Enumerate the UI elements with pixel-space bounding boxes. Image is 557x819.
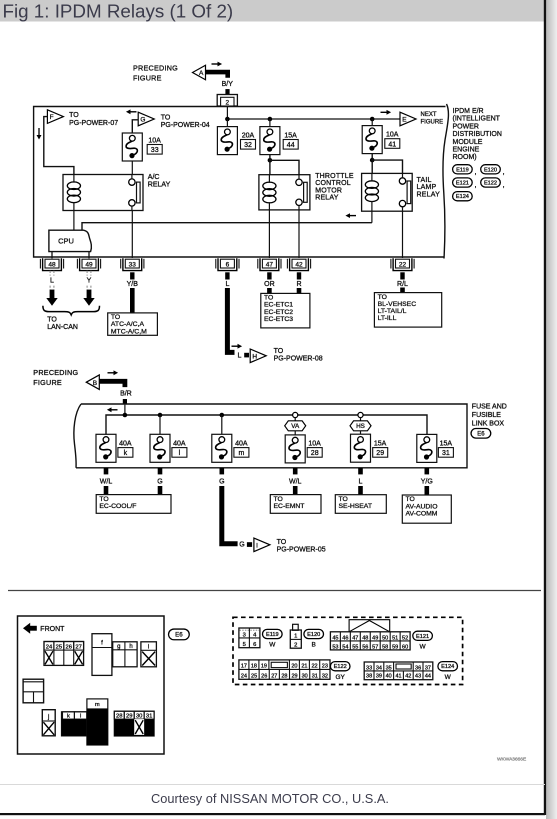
junction dot at fuse 32 tap <box>225 117 230 122</box>
svg-text:E119: E119 <box>266 632 279 638</box>
svg-text:37: 37 <box>425 665 431 671</box>
svg-text:E120: E120 <box>484 167 497 173</box>
fuse box output stub (G) <box>158 468 163 475</box>
svg-text:EC-ETC2: EC-ETC2 <box>264 309 293 316</box>
thick wire L from terminal 6 down <box>225 272 229 279</box>
terminal 22 of IPDM box <box>391 258 414 270</box>
svg-text:41: 41 <box>388 141 396 148</box>
svg-text:LAN-CAN: LAN-CAN <box>47 324 78 331</box>
svg-text:31: 31 <box>146 714 152 720</box>
svg-text:PRECEDING: PRECEDING <box>33 368 78 377</box>
fuse 15A 31 <box>417 434 437 462</box>
connector oval E119 <box>453 165 473 174</box>
svg-text:47: 47 <box>266 261 274 268</box>
triangle F to PG-POWER-07 <box>47 110 63 124</box>
junction dot under fuse 44 <box>268 158 273 163</box>
thick wire B/R from B to fuse box <box>99 381 125 387</box>
svg-text:PG-POWER-04: PG-POWER-04 <box>161 122 210 129</box>
page bottom border <box>0 813 545 815</box>
svg-text:HS: HS <box>356 423 365 430</box>
svg-text:33: 33 <box>366 665 372 671</box>
wire stub before H triangle <box>244 353 249 358</box>
svg-text:LT-TAIL/L: LT-TAIL/L <box>378 308 407 315</box>
svg-text:6: 6 <box>253 642 256 648</box>
connector views dashed frame <box>233 617 463 684</box>
cell j with X <box>42 710 55 736</box>
svg-text:40A: 40A <box>173 440 186 447</box>
thick wire R/L to BL-VEHSEC box <box>400 272 404 279</box>
svg-text:42: 42 <box>295 261 303 268</box>
svg-text:31: 31 <box>442 450 450 457</box>
svg-text:EC-COOL/F: EC-COOL/F <box>99 503 136 510</box>
terminal 6 of IPDM box <box>216 258 239 270</box>
svg-text:43: 43 <box>415 674 421 680</box>
bus line to E triangle <box>227 118 400 120</box>
svg-text:29: 29 <box>126 714 132 720</box>
tap circle HS <box>358 412 363 417</box>
svg-text:E6: E6 <box>175 631 183 638</box>
svg-text:DISTRIBUTION: DISTRIBUTION <box>453 131 502 138</box>
svg-text:E121: E121 <box>456 181 469 187</box>
svg-text:3: 3 <box>243 632 246 638</box>
svg-text:28: 28 <box>116 714 122 720</box>
thick wire B/Y from A to connector 2 <box>206 72 228 78</box>
svg-text:m: m <box>95 702 100 708</box>
throttle control motor relay <box>259 175 310 210</box>
to box SE-HSEAT <box>335 495 386 514</box>
svg-text:10A: 10A <box>148 137 161 144</box>
fuse 10A 33 <box>122 133 142 161</box>
svg-text:36: 36 <box>415 665 421 671</box>
svg-text:32: 32 <box>244 142 252 149</box>
svg-text:MODULE: MODULE <box>453 139 483 146</box>
connector E121 pin view (45-60) <box>330 620 410 651</box>
fuse and fusible link box outline <box>76 404 467 468</box>
svg-text:48: 48 <box>48 261 56 268</box>
fuse box output stub (Y/G) <box>425 468 430 475</box>
svg-text:i: i <box>148 644 149 650</box>
svg-text:52: 52 <box>402 635 408 641</box>
fuse 20A 32 <box>226 119 228 127</box>
svg-text:B: B <box>312 642 316 649</box>
terminal 47 of IPDM box <box>258 258 281 270</box>
cells g h <box>113 642 137 667</box>
svg-text:SE-HSEAT: SE-HSEAT <box>339 503 373 510</box>
fuse box torn left edge <box>74 404 81 468</box>
connector oval E6 (fuse box) <box>471 429 491 439</box>
svg-text:28: 28 <box>281 673 287 679</box>
fuse 10A 28 <box>285 435 305 463</box>
thick wire Y/B to A/C box <box>130 272 134 279</box>
svg-text:k: k <box>67 714 70 720</box>
svg-text:44: 44 <box>287 142 295 149</box>
svg-text:B/R: B/R <box>120 390 132 397</box>
svg-text:k: k <box>124 450 128 457</box>
svg-text:L: L <box>225 281 229 288</box>
svg-text:EC-ETC3: EC-ETC3 <box>264 316 293 323</box>
branch wire to throttle relay contact <box>270 155 299 175</box>
svg-text:MOTOR: MOTOR <box>315 187 342 194</box>
section separator line <box>8 590 541 592</box>
svg-text:FIGURE: FIGURE <box>133 73 162 82</box>
oval E120 (view label) <box>304 629 324 638</box>
svg-text:F: F <box>50 114 54 121</box>
wire tail relay contact to terminal 22 <box>402 211 404 258</box>
svg-text:E124: E124 <box>456 194 469 200</box>
svg-text:W: W <box>420 643 427 650</box>
svg-text:W: W <box>269 642 276 649</box>
svg-text:44: 44 <box>425 674 431 680</box>
svg-text:22: 22 <box>311 663 317 669</box>
svg-text:h: h <box>129 644 132 650</box>
svg-text:LT-ILL: LT-ILL <box>378 315 397 322</box>
wire A/C relay contact to terminal 33 <box>131 211 133 259</box>
arrow left on bus <box>107 407 118 412</box>
junction dot fuse m tap <box>220 413 225 418</box>
svg-text:l: l <box>80 714 81 720</box>
CPU control wire to relay coils <box>82 223 372 231</box>
svg-text:57: 57 <box>372 644 378 650</box>
svg-text:CPU: CPU <box>58 237 74 246</box>
svg-text:Y/G: Y/G <box>421 479 433 486</box>
arrow right above wire A <box>212 62 223 67</box>
triangle I to PG-POWER-05 <box>254 538 270 552</box>
svg-text:51: 51 <box>392 635 398 641</box>
fuse box output stub (W/L) <box>293 468 298 475</box>
brace under CAN arrows <box>43 306 100 315</box>
svg-text:L: L <box>50 278 54 285</box>
connector 2 (on IPDM box top) <box>217 95 237 107</box>
svg-text:26: 26 <box>66 644 72 650</box>
svg-text:41: 41 <box>395 674 401 680</box>
svg-text:33: 33 <box>129 261 137 268</box>
svg-text:45: 45 <box>332 635 338 641</box>
fuse 15A 29 <box>351 434 371 462</box>
svg-text:53: 53 <box>332 644 338 650</box>
title bar <box>0 0 557 22</box>
svg-text:VA: VA <box>291 423 300 430</box>
svg-text:40: 40 <box>386 674 392 680</box>
svg-text:AV-COMM: AV-COMM <box>406 510 438 517</box>
svg-text:E122: E122 <box>334 664 347 670</box>
svg-text:RELAY: RELAY <box>148 182 171 189</box>
junction dot B/R on bus <box>123 413 128 418</box>
svg-text:20: 20 <box>291 663 297 669</box>
connector oval E121 <box>453 178 473 187</box>
svg-text:E: E <box>402 117 407 124</box>
svg-text:TO: TO <box>99 496 108 503</box>
svg-text:TO: TO <box>406 496 415 503</box>
svg-text:60: 60 <box>402 644 408 650</box>
IPDM E/R box outline <box>34 107 446 258</box>
terminal 33 of IPDM box <box>121 258 144 270</box>
fuse 15A 44 <box>269 119 271 127</box>
thick wire G to EC-COOL/F <box>158 486 163 495</box>
triangle A (from preceding figure) <box>193 65 206 80</box>
svg-text:CONTROL: CONTROL <box>315 180 351 187</box>
wire stub before I triangle <box>247 542 252 547</box>
svg-text:FIGURE: FIGURE <box>421 119 444 125</box>
svg-text:33: 33 <box>151 147 159 154</box>
svg-text:25: 25 <box>56 644 62 650</box>
terminal 42 of IPDM box <box>287 258 310 270</box>
wire from G down to fuse 33 <box>132 120 138 133</box>
svg-text:FRONT: FRONT <box>40 626 65 633</box>
connector E122 pin view (17-32) <box>239 660 330 679</box>
svg-text:59: 59 <box>392 644 398 650</box>
CAN wire dashes and arrow (Y) <box>83 271 94 306</box>
courtesy separator line <box>0 784 545 786</box>
svg-text:TO: TO <box>111 314 120 321</box>
svg-text:Y: Y <box>87 278 92 285</box>
svg-text:B/Y: B/Y <box>222 81 234 88</box>
svg-text:IPDM E/R: IPDM E/R <box>453 108 484 115</box>
svg-text:TO: TO <box>277 539 287 546</box>
svg-text:40A: 40A <box>235 440 248 447</box>
svg-text:j: j <box>47 715 49 721</box>
svg-text:47: 47 <box>352 635 358 641</box>
fuse box output stub (L) <box>358 468 363 475</box>
svg-text:LAMP: LAMP <box>417 184 437 191</box>
svg-text:PG-POWER-07: PG-POWER-07 <box>69 120 118 127</box>
svg-text:15A: 15A <box>374 440 387 447</box>
CPU pin to terminal 49 <box>88 252 90 259</box>
svg-text:I: I <box>256 542 258 549</box>
junction dot at fuse 44 tap <box>268 117 273 122</box>
svg-text:POWER: POWER <box>453 123 479 130</box>
thick wire W/L to EC-EMNT <box>293 486 298 495</box>
svg-text:W/L: W/L <box>100 479 113 486</box>
bus wire from connector 2 <box>226 106 228 119</box>
svg-text:31: 31 <box>312 673 318 679</box>
svg-text:FUSIBLE: FUSIBLE <box>472 412 502 419</box>
svg-text:A: A <box>199 70 204 77</box>
svg-text:2: 2 <box>294 642 297 648</box>
thick wire G to PG-POWER-05 <box>222 486 238 544</box>
fuse box output stub (G) <box>220 468 225 475</box>
svg-text:E124: E124 <box>441 664 454 670</box>
triangle E to next figure <box>400 112 416 126</box>
wire B/R into bus <box>124 405 126 415</box>
thick wire Y/G to AV box <box>424 486 429 495</box>
CAN wire dashes and arrow (L) <box>46 271 57 306</box>
svg-text:BL-VEHSEC: BL-VEHSEC <box>378 301 417 308</box>
svg-text:55: 55 <box>352 644 358 650</box>
svg-text:PG-POWER-08: PG-POWER-08 <box>274 355 323 362</box>
cell m (shaded) <box>87 699 108 745</box>
to box ATC/MTC <box>108 313 158 335</box>
svg-text:B: B <box>93 380 97 387</box>
svg-text:58: 58 <box>382 644 388 650</box>
svg-text:29: 29 <box>292 673 298 679</box>
svg-text:Fig 1: IPDM Relays (1 Of 2): Fig 1: IPDM Relays (1 Of 2) <box>3 0 234 21</box>
oval E121 (view label) <box>413 631 433 640</box>
svg-text:ENGINE: ENGINE <box>453 147 480 154</box>
to box AV-AUDIO AV-COMM <box>402 495 451 523</box>
hexagon VA (VQ35DE with A/T) <box>294 418 296 421</box>
fuse 40A m <box>212 434 232 462</box>
fuse box layout figure frame <box>18 616 165 754</box>
svg-text:27: 27 <box>271 673 277 679</box>
connector oval E6 (figure label) <box>169 629 190 640</box>
connector oval E122 <box>481 178 501 187</box>
wire A/C relay coil to CPU <box>73 211 75 231</box>
junction dot fuse l tap <box>158 413 163 418</box>
svg-text:EC-ETC1: EC-ETC1 <box>264 302 293 309</box>
arrow right on L wire <box>232 344 243 349</box>
svg-text:15A: 15A <box>284 132 297 139</box>
relay f cell <box>92 634 112 676</box>
svg-text:20A: 20A <box>242 132 255 139</box>
svg-text:46: 46 <box>342 635 348 641</box>
svg-text:MTC-A/C,M: MTC-A/C,M <box>111 328 147 335</box>
svg-text:FIGURE: FIGURE <box>33 378 62 387</box>
small block left <box>23 679 43 703</box>
svg-text:G: G <box>157 479 162 486</box>
svg-text:2: 2 <box>225 99 229 106</box>
svg-text:42: 42 <box>405 674 411 680</box>
svg-text:E119: E119 <box>456 167 469 173</box>
svg-text:TAIL: TAIL <box>417 177 432 184</box>
svg-text:H: H <box>252 353 257 360</box>
arrow left on CPU control wire <box>345 213 356 218</box>
svg-text:ATC-A/C,A: ATC-A/C,A <box>111 321 145 328</box>
svg-text:TO: TO <box>274 348 284 355</box>
wire throttle relay contact to terminal 42 <box>298 210 300 258</box>
svg-text:19: 19 <box>261 663 267 669</box>
svg-text:17: 17 <box>241 663 247 669</box>
connector E119 pin view (3 4 / 5 6) <box>239 628 260 648</box>
thick wire R to EC-ETC box <box>297 272 301 279</box>
svg-text:TO: TO <box>161 115 171 122</box>
wire throttle relay coil to terminal 47 <box>268 210 270 258</box>
svg-text:W: W <box>445 674 452 681</box>
svg-text:TO: TO <box>47 316 57 323</box>
FRONT arrow <box>23 623 37 634</box>
fuse 40A k <box>96 434 116 462</box>
svg-text:27: 27 <box>75 644 81 650</box>
svg-text:ROOM): ROOM) <box>453 154 477 161</box>
svg-text:39: 39 <box>376 674 382 680</box>
thick wire L to SE-HSEAT <box>358 486 363 495</box>
svg-text:TO: TO <box>69 112 79 119</box>
cell i with X <box>141 642 157 667</box>
svg-text:26: 26 <box>261 673 267 679</box>
triangle H to PG-POWER-08 <box>250 349 266 363</box>
svg-text:NEXT: NEXT <box>421 112 437 118</box>
svg-text:23: 23 <box>322 663 328 669</box>
svg-text:24: 24 <box>241 673 247 679</box>
svg-text:5: 5 <box>243 642 246 648</box>
fuse 40A l <box>150 434 170 462</box>
svg-text:GY: GY <box>335 674 345 681</box>
oval E119 (view label) <box>263 629 283 638</box>
svg-text:RELAY: RELAY <box>417 191 441 198</box>
arrow right before E triangle <box>381 110 392 115</box>
svg-text:24: 24 <box>46 644 53 650</box>
cell grid 28-31 (shaded) <box>114 711 154 736</box>
svg-text:,: , <box>503 182 505 189</box>
svg-text:38: 38 <box>366 674 372 680</box>
svg-text:WKWA3666E: WKWA3666E <box>497 757 526 763</box>
svg-text:THROTTLE: THROTTLE <box>315 173 354 180</box>
svg-text:RELAY: RELAY <box>315 195 339 202</box>
svg-text:21: 21 <box>301 663 307 669</box>
svg-text:,: , <box>475 169 477 176</box>
CPU box <box>49 230 92 251</box>
svg-text:A/C: A/C <box>148 174 160 181</box>
to box EC-EMNT <box>270 495 321 514</box>
svg-text:TO: TO <box>339 496 348 503</box>
triangle G to PG-POWER-04 <box>138 112 154 126</box>
svg-text:R: R <box>296 281 301 288</box>
tail lamp relay <box>362 173 413 211</box>
svg-text:40A: 40A <box>119 440 132 447</box>
down arrow on F wire <box>37 128 42 140</box>
svg-text:29: 29 <box>376 450 384 457</box>
svg-text:G: G <box>140 117 145 124</box>
hexagon HS (with heated seats) <box>360 418 362 421</box>
svg-text:E120: E120 <box>307 632 320 638</box>
svg-text:32: 32 <box>322 673 328 679</box>
wire fuse 33 to A/C relay contact <box>131 161 133 175</box>
svg-text:E6: E6 <box>477 431 485 437</box>
wire fuse l tap <box>159 415 161 434</box>
svg-text:G: G <box>219 479 224 486</box>
svg-text:L: L <box>359 479 363 486</box>
IPDM box torn right edge <box>443 104 449 259</box>
svg-text:6: 6 <box>226 261 230 268</box>
svg-text:Y/B: Y/B <box>127 281 139 288</box>
terminal 49 of IPDM box <box>77 258 100 270</box>
triangle B (from preceding figure) <box>86 375 99 390</box>
svg-text:54: 54 <box>342 644 348 650</box>
terminal 48 of IPDM box <box>40 258 63 270</box>
wire tail relay coil to CPU control wire <box>371 211 373 223</box>
junction dot under fuse 41 <box>370 158 375 163</box>
CPU pin to terminal 48 <box>51 252 53 259</box>
thick wire W/L to EC-COOL/F <box>104 486 109 495</box>
svg-text:OR: OR <box>264 281 275 288</box>
svg-text:LINK BOX: LINK BOX <box>472 421 505 428</box>
cell grid 24-27 <box>44 642 84 666</box>
svg-text:E122: E122 <box>484 181 497 187</box>
svg-text:48: 48 <box>362 635 368 641</box>
svg-text:1: 1 <box>294 634 297 640</box>
svg-text:R/L: R/L <box>397 281 408 288</box>
svg-text:g: g <box>117 644 120 650</box>
svg-text:56: 56 <box>362 644 368 650</box>
connector E120 pin view (1/2) <box>290 624 301 648</box>
svg-text:TO: TO <box>378 294 387 301</box>
oval E122 (view label) <box>330 662 350 671</box>
tap circle VA <box>293 412 298 417</box>
svg-text:15A: 15A <box>440 440 453 447</box>
svg-text:34: 34 <box>376 665 382 671</box>
to box BL-VEHSEC <box>374 293 441 328</box>
svg-text:30: 30 <box>136 714 142 720</box>
svg-text:m: m <box>238 450 244 457</box>
svg-text:PG-POWER-05: PG-POWER-05 <box>277 546 326 553</box>
internal bus line of fuse box <box>106 415 427 434</box>
fuse box output stub (W/L) <box>104 468 109 475</box>
svg-text:10A: 10A <box>386 132 399 139</box>
connector oval E120 <box>481 165 501 174</box>
svg-text:22: 22 <box>399 261 407 268</box>
arrow right above wire B <box>108 370 119 375</box>
oval E124 (view label) <box>438 662 458 671</box>
svg-text:Courtesy of NISSAN MOTOR CO.,: Courtesy of NISSAN MOTOR CO., U.S.A. <box>151 791 389 806</box>
